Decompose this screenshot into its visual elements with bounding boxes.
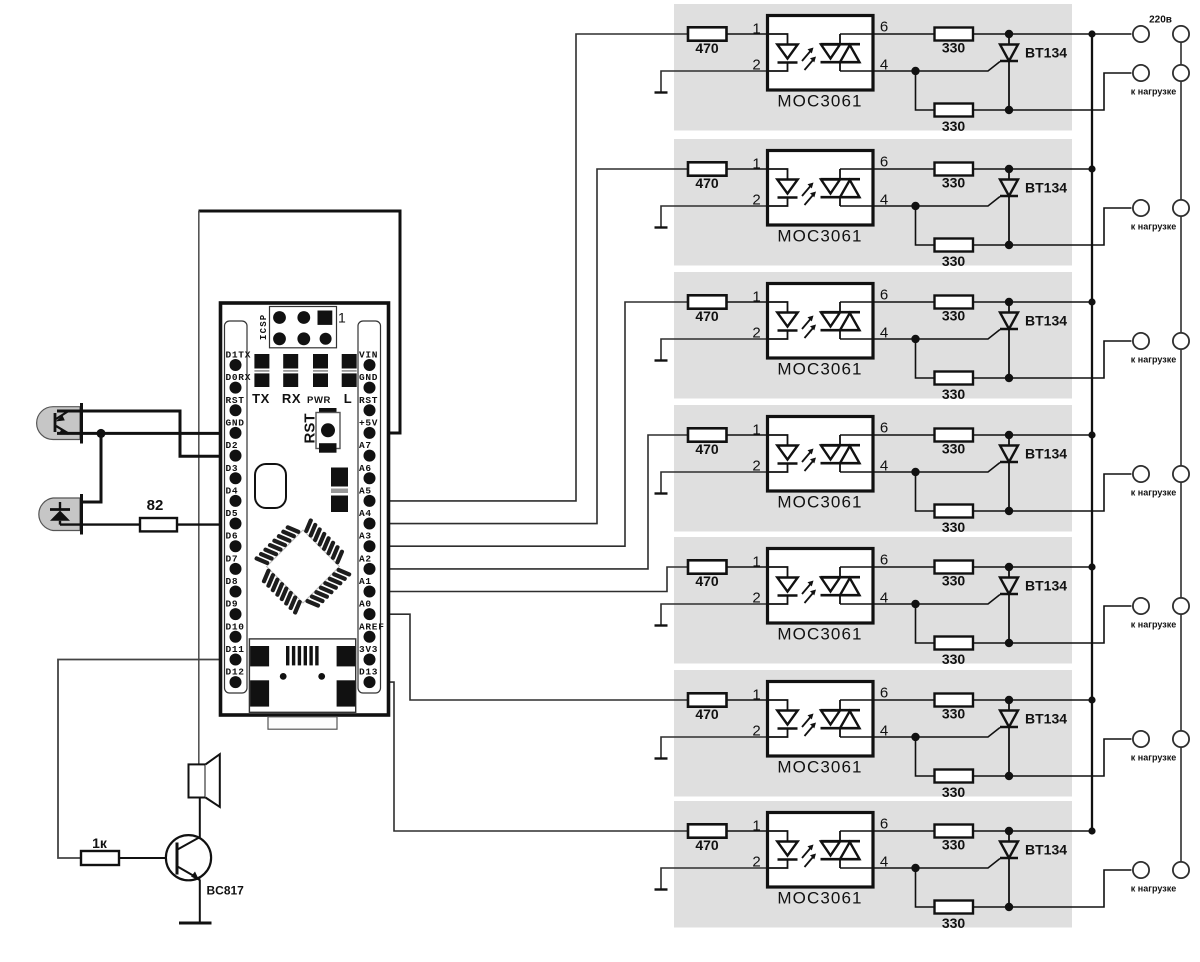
svg-text:BC817: BC817 <box>207 884 245 898</box>
junction pin4 channel 1 <box>911 67 919 75</box>
LED RX <box>283 354 298 387</box>
wire optocoupler pin4 to triac gate channel 2 <box>840 197 1000 207</box>
op-to-coupler MOC3061 channel 2 <box>768 151 874 246</box>
svg-text:D1TX: D1TX <box>226 350 252 361</box>
wire +5V loop <box>199 211 401 433</box>
wire 330 to triac MT2 and terminal channel 6 <box>973 699 1092 701</box>
svg-text:A5: A5 <box>359 485 372 496</box>
svg-text:3V3: 3V3 <box>359 644 378 655</box>
svg-text:MOC3061: MOC3061 <box>777 758 862 777</box>
channel 7 background panel <box>674 801 1072 928</box>
label k nagruzke channel 7 <box>1131 884 1176 894</box>
label PWR <box>307 395 331 406</box>
svg-text:470: 470 <box>695 441 719 457</box>
channel 4 background panel <box>674 405 1072 532</box>
terminal load left channel 5 <box>1133 598 1149 614</box>
resistor 470 channel 2 <box>688 162 727 191</box>
svg-text:к нагрузке: к нагрузке <box>1131 355 1176 365</box>
svg-text:TX: TX <box>252 391 270 406</box>
junction 220V bus channel 5 <box>1088 563 1095 570</box>
wire pin4 junction to lower 330 channel 5 <box>916 604 935 643</box>
resistor 330 upper channel 4 <box>935 429 974 457</box>
pin D6 <box>226 531 242 553</box>
resistor 330 lower channel 1 <box>935 104 974 135</box>
label k nagruzke channel 3 <box>1131 355 1176 365</box>
pin D2 <box>226 440 242 462</box>
svg-text:к нагрузке: к нагрузке <box>1131 884 1176 894</box>
optocoupler light arrows channel 1 <box>802 48 816 71</box>
wire 330 to triac MT2 and terminal channel 5 <box>973 566 1092 568</box>
resistor 330 upper channel 5 <box>935 561 974 589</box>
pin 6 label channel 7 <box>880 816 888 833</box>
wire pin4 junction to lower 330 channel 2 <box>916 206 935 245</box>
ground channel 4 <box>655 492 668 494</box>
pin 4 label channel 1 <box>880 57 888 74</box>
svg-text:D9: D9 <box>226 599 239 610</box>
svg-text:1: 1 <box>752 156 760 173</box>
svg-text:470: 470 <box>695 837 719 853</box>
wire optocoupler pin4 to triac gate channel 6 <box>840 728 1000 738</box>
wire 330 to triac MT2 and terminal channel 7 <box>973 830 1092 832</box>
label L <box>344 391 353 406</box>
svg-text:ICSP: ICSP <box>259 314 269 340</box>
RST button <box>302 408 341 453</box>
svg-text:A2: A2 <box>359 553 372 564</box>
svg-text:6: 6 <box>880 816 888 833</box>
pin D10 <box>226 621 245 643</box>
wire lower 330 to load terminal channel 5 <box>973 606 1132 643</box>
terminal load left channel 6 <box>1133 731 1149 747</box>
svg-text:470: 470 <box>695 706 719 722</box>
resistor 330 upper channel 6 <box>935 694 974 722</box>
wire pin4 junction to lower 330 channel 6 <box>916 737 935 776</box>
wire 470 to optocoupler pin1 channel 1 <box>727 33 768 35</box>
wire optocoupler pin6 to 330 channel 1 <box>840 33 935 35</box>
wire 330 to triac MT2 and terminal channel 4 <box>973 434 1092 436</box>
pin RST <box>359 395 378 417</box>
svg-text:330: 330 <box>942 784 966 800</box>
svg-text:к нагрузке: к нагрузке <box>1131 753 1176 763</box>
wire lower 330 to load terminal channel 4 <box>973 474 1132 511</box>
pin D1TX <box>226 350 252 372</box>
pin D3 <box>226 463 242 484</box>
svg-text:L: L <box>344 391 353 406</box>
junction triac MT2 channel 3 <box>1005 298 1013 306</box>
svg-text:330: 330 <box>942 519 966 535</box>
wire optocoupler pin6 to 330 channel 7 <box>840 830 935 832</box>
terminal load left channel 4 <box>1133 466 1149 482</box>
svg-text:BT134: BT134 <box>1025 180 1067 196</box>
mini-USB connector <box>249 639 355 712</box>
left pin header strip <box>225 321 248 693</box>
svg-text:D11: D11 <box>226 644 245 655</box>
svg-text:MOC3061: MOC3061 <box>777 92 862 111</box>
svg-text:BT134: BT134 <box>1025 45 1067 61</box>
svg-text:A0: A0 <box>359 599 372 610</box>
resistor 330 upper channel 1 <box>935 28 974 56</box>
wire terminal chain channel 6 to channel 7 <box>1180 747 1182 862</box>
pin D4 <box>226 485 242 507</box>
wire optocoupler pin2 to ground channel 2 <box>661 206 768 228</box>
pin A0 <box>359 599 376 621</box>
svg-text:PWR: PWR <box>307 395 331 406</box>
wire 470 to optocoupler pin1 channel 3 <box>727 301 768 303</box>
pin A5 <box>359 485 376 507</box>
pin D13 <box>359 667 378 689</box>
pin 1 label channel 1 <box>752 21 760 38</box>
svg-text:VIN: VIN <box>359 350 378 361</box>
junction triac MT1 channel 1 <box>1005 106 1013 114</box>
wire optocoupler pin6 to 330 channel 6 <box>840 699 935 701</box>
resistor 82 <box>140 497 177 531</box>
svg-text:1: 1 <box>752 422 760 439</box>
label 220V <box>1149 15 1172 26</box>
ground channel 6 <box>655 757 668 759</box>
svg-text:к нагрузке: к нагрузке <box>1131 620 1176 630</box>
svg-text:470: 470 <box>695 175 719 191</box>
op-to-coupler MOC3061 channel 7 <box>768 813 874 908</box>
LED PWR <box>313 354 328 387</box>
svg-text:6: 6 <box>880 19 888 36</box>
svg-text:1: 1 <box>752 818 760 835</box>
optocoupler light arrows channel 5 <box>802 581 816 604</box>
wire 470 to optocoupler pin1 channel 5 <box>727 566 768 568</box>
channel 3 background panel <box>674 272 1072 399</box>
wire optocoupler pin4 to triac gate channel 7 <box>840 859 1000 869</box>
triac BT134 channel 1 <box>1000 38 1067 110</box>
wire Arduino to channel 7 input <box>370 682 689 831</box>
wire terminal chain channel 1 to channel 2 <box>1180 81 1182 200</box>
wire lower 330 to load terminal channel 6 <box>973 739 1132 776</box>
svg-text:D12: D12 <box>226 667 245 678</box>
svg-text:6: 6 <box>880 420 888 437</box>
svg-text:D5: D5 <box>226 508 239 519</box>
junction 220V bus channel 3 <box>1088 298 1095 305</box>
wire pin4 junction to lower 330 channel 4 <box>916 472 935 511</box>
wire phototransistor emitter to GND <box>57 432 236 435</box>
svg-text:BT134: BT134 <box>1025 446 1067 462</box>
pin 6 label channel 4 <box>880 420 888 437</box>
junction triac MT2 channel 2 <box>1005 165 1013 173</box>
svg-text:6: 6 <box>880 154 888 171</box>
wire Arduino to channel 3 input <box>370 302 689 546</box>
terminal load left channel 3 <box>1133 333 1149 349</box>
wire optocoupler pin6 to 330 channel 4 <box>840 434 935 436</box>
junction pin4 channel 6 <box>911 733 919 741</box>
svg-text:330: 330 <box>942 837 966 853</box>
pin 2 label channel 5 <box>752 590 760 607</box>
junction triac MT1 channel 6 <box>1005 772 1013 780</box>
svg-text:A3: A3 <box>359 531 372 542</box>
wire Arduino to channel 5 input <box>370 567 689 592</box>
oval pad <box>255 464 286 508</box>
svg-text:MOC3061: MOC3061 <box>777 227 862 246</box>
wire optocoupler pin6 to 330 channel 5 <box>840 566 935 568</box>
junction pin4 channel 7 <box>911 864 919 872</box>
pin A6 <box>359 463 376 484</box>
terminal 220V right <box>1173 26 1189 42</box>
junction 220V bus channel 4 <box>1088 431 1095 438</box>
svg-text:MOC3061: MOC3061 <box>777 493 862 512</box>
resistor 470 channel 3 <box>688 295 727 324</box>
pin A7 <box>359 440 376 462</box>
optocoupler internal LED channel 6 <box>768 700 798 737</box>
ground channel 7 <box>655 888 668 890</box>
svg-text:1к: 1к <box>92 835 108 851</box>
op-to-coupler MOC3061 channel 1 <box>768 16 874 111</box>
pin D5 <box>226 508 242 530</box>
svg-text:RST: RST <box>226 395 245 406</box>
wire Arduino to channel 4 input <box>370 435 689 569</box>
svg-text:470: 470 <box>695 308 719 324</box>
wire emitter to ground <box>199 880 201 924</box>
terminal load right channel 5 <box>1173 598 1189 614</box>
svg-text:D3: D3 <box>226 463 239 474</box>
svg-text:6: 6 <box>880 287 888 304</box>
svg-text:MOC3061: MOC3061 <box>777 625 862 644</box>
pin 1 label channel 6 <box>752 687 760 704</box>
pin D9 <box>226 599 242 621</box>
wire optocoupler pin6 to 330 channel 2 <box>840 168 935 170</box>
wire 470 to optocoupler pin1 channel 4 <box>727 434 768 436</box>
junction 220V bus channel 1 <box>1088 30 1095 37</box>
wire optocoupler pin2 to ground channel 7 <box>661 868 768 890</box>
pin 2 label channel 2 <box>752 192 760 209</box>
svg-text:330: 330 <box>942 118 966 134</box>
label k nagruzke channel 4 <box>1131 488 1176 498</box>
wire 330 to triac MT2 and terminal channel 3 <box>973 301 1092 303</box>
pin A2 <box>359 553 376 575</box>
pin 2 label channel 6 <box>752 723 760 740</box>
junction 220V bus channel 2 <box>1088 165 1095 172</box>
pin 1 label channel 4 <box>752 422 760 439</box>
svg-text:330: 330 <box>942 175 966 191</box>
pin 2 label channel 1 <box>752 57 760 74</box>
Arduino Nano board outline <box>221 303 389 715</box>
LED L <box>342 354 357 387</box>
LED TX <box>254 354 269 387</box>
pin 2 label channel 7 <box>752 854 760 871</box>
wire lower 330 to load terminal channel 1 <box>973 73 1132 110</box>
svg-text:470: 470 <box>695 40 719 56</box>
pin AREF <box>359 621 385 643</box>
IR LED <box>39 494 82 535</box>
svg-text:330: 330 <box>942 573 966 589</box>
resistor 330 lower channel 7 <box>935 901 974 932</box>
wire pin4 junction to lower 330 channel 7 <box>916 868 935 907</box>
svg-text:D2: D2 <box>226 440 239 451</box>
ground channel 3 <box>655 359 668 361</box>
junction triac MT2 channel 1 <box>1005 30 1013 38</box>
pin 4 label channel 7 <box>880 854 888 871</box>
svg-text:A1: A1 <box>359 576 372 587</box>
optocoupler internal LED channel 4 <box>768 435 798 472</box>
right pin header strip <box>358 321 381 693</box>
optocoupler internal LED channel 3 <box>768 302 798 339</box>
svg-text:RX: RX <box>282 391 301 406</box>
svg-text:к нагрузке: к нагрузке <box>1131 87 1176 97</box>
optocoupler internal LED channel 7 <box>768 831 798 868</box>
junction triac MT2 channel 4 <box>1005 431 1013 439</box>
optocoupler light arrows channel 3 <box>802 316 816 339</box>
pin RST <box>226 395 245 417</box>
pin 4 label channel 5 <box>880 590 888 607</box>
pin A3 <box>359 531 376 553</box>
ground channel 2 <box>655 226 668 228</box>
junction triac MT1 channel 7 <box>1005 903 1013 911</box>
wire lower 330 to load terminal channel 7 <box>973 870 1132 907</box>
junction pin4 channel 4 <box>911 468 919 476</box>
pin D8 <box>226 576 242 598</box>
wire lower 330 to load terminal channel 3 <box>973 341 1132 378</box>
pin D7 <box>226 553 242 575</box>
wire Arduino to channel 1 input <box>370 34 689 501</box>
wire resistor 82 to D5 <box>177 523 236 525</box>
ICSP header <box>259 307 346 348</box>
terminal load left channel 2 <box>1133 200 1149 216</box>
wire +5V to speaker <box>198 211 200 764</box>
op-to-coupler MOC3061 channel 6 <box>768 682 874 777</box>
wire optocoupler pin4 to triac gate channel 4 <box>840 463 1000 473</box>
wire terminal chain channel 4 to channel 5 <box>1180 482 1182 598</box>
svg-text:BT134: BT134 <box>1025 578 1067 594</box>
svg-text:+5V: +5V <box>359 417 378 428</box>
pin D12 <box>226 667 245 689</box>
svg-text:470: 470 <box>695 573 719 589</box>
svg-text:6: 6 <box>880 552 888 569</box>
svg-text:330: 330 <box>942 253 966 269</box>
junction triac MT1 channel 4 <box>1005 507 1013 515</box>
pin 1 label channel 2 <box>752 156 760 173</box>
triac BT134 channel 6 <box>1000 704 1067 776</box>
triac BT134 channel 3 <box>1000 306 1067 378</box>
wire Arduino to channel 2 input <box>370 169 689 524</box>
label TX <box>252 391 270 406</box>
wire 220V bus vertical <box>1091 34 1093 831</box>
triac BT134 channel 2 <box>1000 173 1067 245</box>
triac BT134 channel 7 <box>1000 835 1067 907</box>
label RX <box>282 391 301 406</box>
junction triac MT2 channel 5 <box>1005 563 1013 571</box>
svg-text:1: 1 <box>752 289 760 306</box>
svg-text:330: 330 <box>942 706 966 722</box>
wire optocoupler pin2 to ground channel 3 <box>661 339 768 361</box>
terminal load left channel 7 <box>1133 862 1149 878</box>
wire optocoupler pin2 to ground channel 5 <box>661 604 768 626</box>
wire optocoupler pin2 to ground channel 1 <box>661 71 768 93</box>
svg-text:1: 1 <box>752 687 760 704</box>
junction triac MT1 channel 2 <box>1005 241 1013 249</box>
resistor 470 channel 5 <box>688 560 727 589</box>
svg-text:6: 6 <box>880 685 888 702</box>
svg-text:82: 82 <box>147 497 164 514</box>
optocoupler light arrows channel 6 <box>802 714 816 737</box>
svg-text:1: 1 <box>752 21 760 38</box>
svg-text:A4: A4 <box>359 508 372 519</box>
resistor 330 lower channel 6 <box>935 770 974 801</box>
channel 6 background panel <box>674 670 1072 797</box>
wire 470 to optocoupler pin1 channel 2 <box>727 168 768 170</box>
svg-text:330: 330 <box>942 915 966 931</box>
resistor 1k <box>81 835 119 865</box>
terminal load left channel 1 <box>1133 65 1149 81</box>
pin 1 label channel 5 <box>752 554 760 571</box>
resistor 330 upper channel 7 <box>935 825 974 853</box>
terminal 220V left <box>1133 26 1149 42</box>
wire phototransistor collector to D2 <box>57 411 236 456</box>
pin 6 label channel 5 <box>880 552 888 569</box>
junction triac MT1 channel 3 <box>1005 374 1013 382</box>
junction triac MT1 channel 5 <box>1005 639 1013 647</box>
wire terminal chain channel 5 to channel 6 <box>1180 614 1182 731</box>
svg-text:D10: D10 <box>226 621 245 632</box>
terminal load right channel 1 <box>1173 65 1189 81</box>
wire terminal chain channel 2 to channel 3 <box>1180 216 1182 333</box>
svg-text:A6: A6 <box>359 463 372 474</box>
junction 220V bus channel 7 <box>1088 827 1095 834</box>
junction 220V bus channel 6 <box>1088 696 1095 703</box>
resistor 330 lower channel 2 <box>935 239 974 270</box>
svg-text:BT134: BT134 <box>1025 842 1067 858</box>
pin 2 label channel 4 <box>752 458 760 475</box>
wire optocoupler pin4 to triac gate channel 3 <box>840 330 1000 340</box>
ground channel 1 <box>655 91 668 93</box>
svg-text:к нагрузке: к нагрузке <box>1131 488 1176 498</box>
ground transistor emitter <box>179 922 212 925</box>
phototransistor IR receiver <box>37 403 82 444</box>
wire pin4 junction to lower 330 channel 1 <box>916 71 935 110</box>
op-to-coupler MOC3061 channel 5 <box>768 549 874 644</box>
svg-text:RST: RST <box>359 395 378 406</box>
svg-text:BT134: BT134 <box>1025 313 1067 329</box>
channel 2 background panel <box>674 139 1072 266</box>
pin 4 label channel 4 <box>880 458 888 475</box>
junction emitter node <box>97 429 106 438</box>
pin D11 <box>226 644 245 666</box>
pin +5V <box>359 417 378 439</box>
wire terminal chain channel 3 to channel 4 <box>1180 349 1182 466</box>
wire optocoupler pin4 to triac gate channel 1 <box>840 62 1000 72</box>
wire 1k to base <box>119 857 177 859</box>
svg-text:1: 1 <box>752 554 760 571</box>
optocoupler internal triac channel 1 <box>821 34 861 71</box>
wire terminal chain 220V to load channel 1 <box>1180 43 1182 65</box>
wire lower 330 to load terminal channel 2 <box>973 208 1132 245</box>
SMD capacitor <box>331 468 348 513</box>
optocoupler internal LED channel 2 <box>768 169 798 206</box>
svg-text:330: 330 <box>942 441 966 457</box>
USB plug overhang <box>268 717 337 729</box>
optocoupler internal triac channel 5 <box>821 567 861 604</box>
wire D11 to resistor 1k <box>58 660 236 859</box>
terminal load right channel 6 <box>1173 731 1189 747</box>
junction triac MT2 channel 7 <box>1005 827 1013 835</box>
triac BT134 channel 4 <box>1000 439 1067 511</box>
pin 1 label channel 7 <box>752 818 760 835</box>
wire 470 to optocoupler pin1 channel 7 <box>727 830 768 832</box>
pin 6 label channel 3 <box>880 287 888 304</box>
wire optocoupler pin2 to ground channel 4 <box>661 472 768 494</box>
wire 470 to optocoupler pin1 channel 6 <box>727 699 768 701</box>
svg-text:D13: D13 <box>359 667 378 678</box>
svg-text:A7: A7 <box>359 440 372 451</box>
label k nagruzke channel 5 <box>1131 620 1176 630</box>
wire Arduino to channel 6 input <box>370 614 689 700</box>
terminal load right channel 4 <box>1173 466 1189 482</box>
junction pin4 channel 2 <box>911 202 919 210</box>
resistor 470 channel 7 <box>688 824 727 853</box>
label k nagruzke channel 1 <box>1131 87 1176 97</box>
